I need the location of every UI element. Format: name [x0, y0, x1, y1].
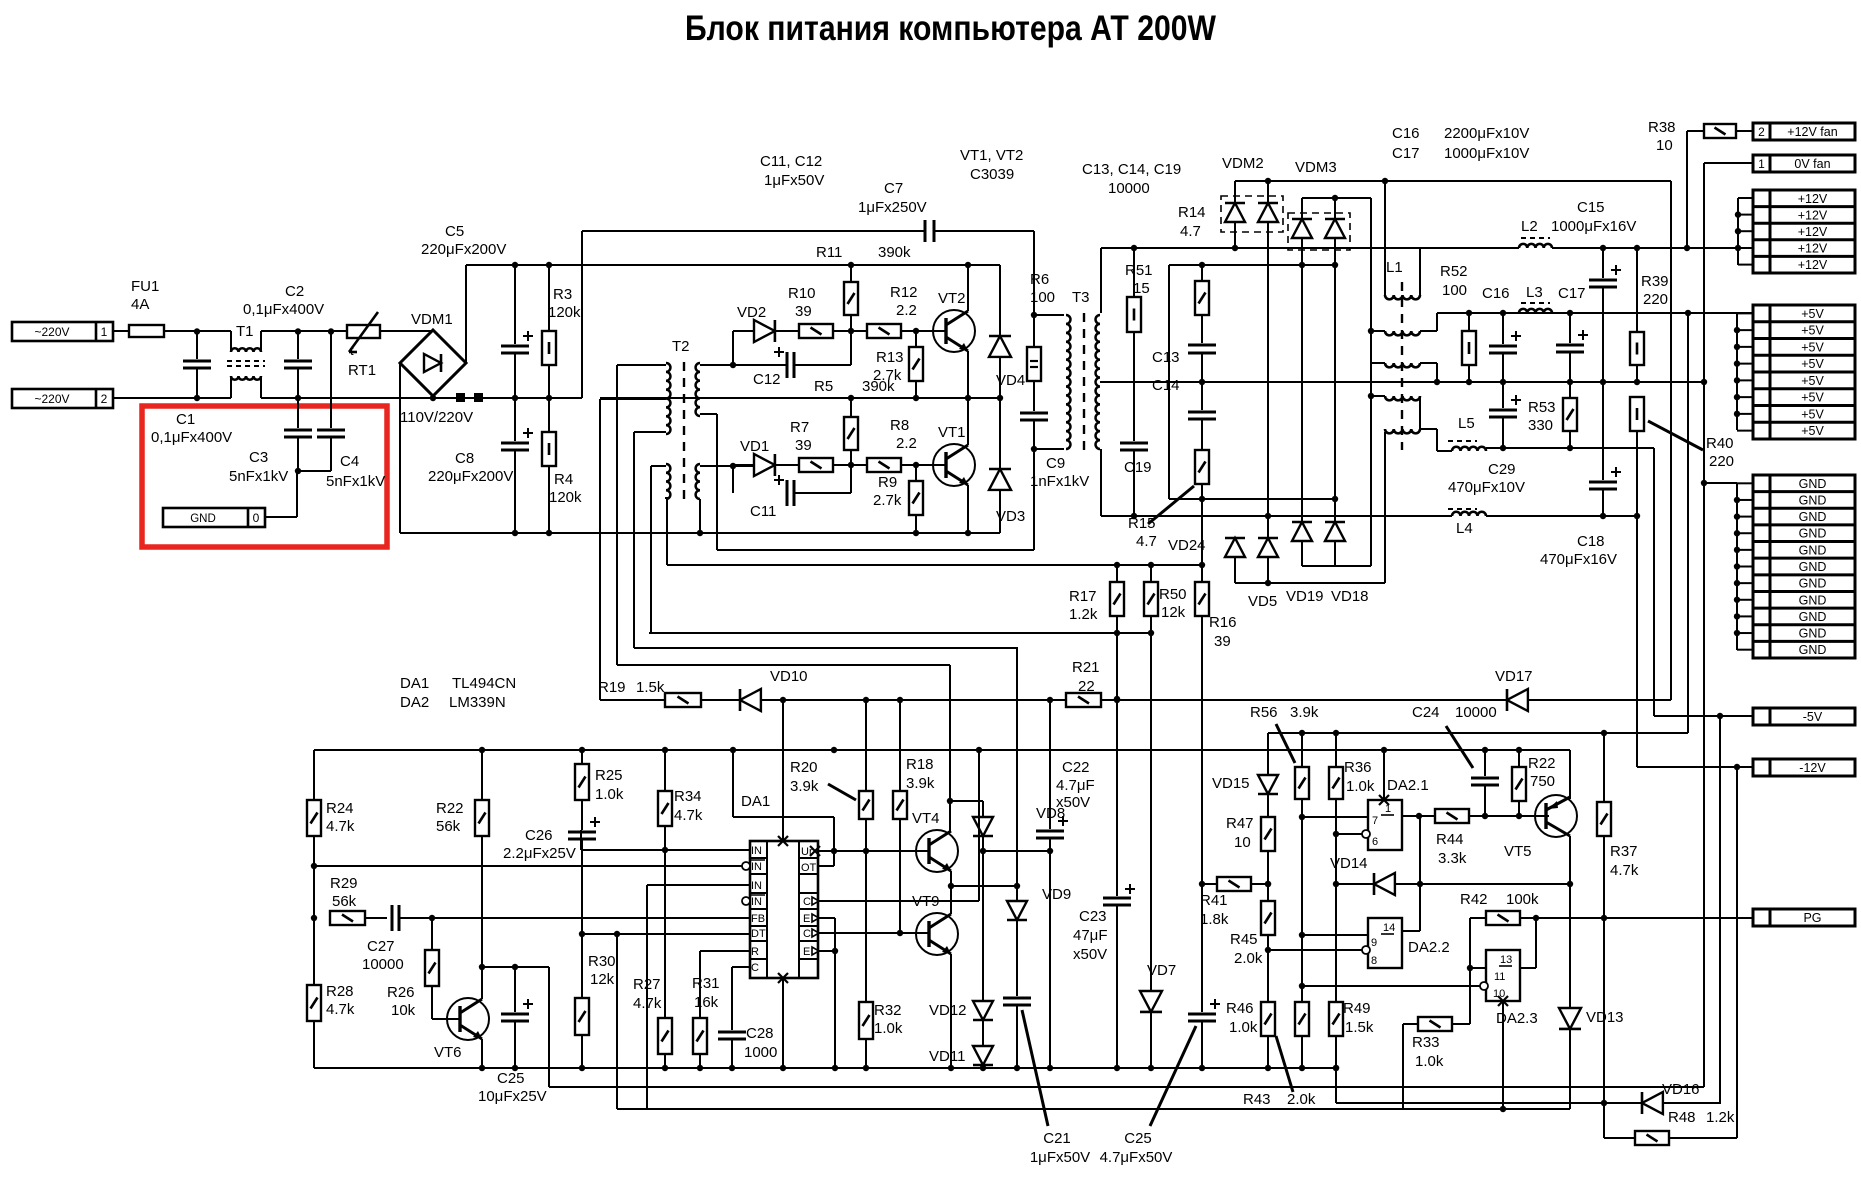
resistor R43 body [1295, 1002, 1309, 1036]
L1 winding 4 [1371, 395, 1385, 397]
wire T2 tap y399 [600, 398, 666, 400]
L1 winding 1 +12V [1384, 181, 1386, 295]
svg-text:R42: R42 [1460, 891, 1488, 908]
svg-text:390k: 390k [862, 378, 895, 395]
svg-text:10: 10 [1656, 137, 1673, 154]
wire DC+ rail y265 [466, 264, 1000, 266]
svg-text:-12V: -12V [1799, 761, 1826, 775]
svg-text:0V fan: 0V fan [1794, 157, 1830, 171]
wire VD24 anode line y583 [1235, 582, 1385, 584]
svg-text:+5V: +5V [1801, 357, 1824, 371]
svg-text:GND: GND [1799, 577, 1827, 591]
svg-text:8: 8 [1371, 955, 1377, 967]
svg-text:110V/220V: 110V/220V [400, 409, 473, 426]
svg-text:~220V: ~220V [34, 325, 69, 339]
svg-text:C29: C29 [1488, 461, 1516, 478]
svg-text:R28: R28 [326, 983, 354, 1000]
svg-text:R46: R46 [1226, 1000, 1254, 1017]
svg-text:GND: GND [1799, 493, 1827, 507]
wire DA2.1 output to R44 [1402, 815, 1435, 817]
svg-text:VD2: VD2 [737, 304, 766, 321]
svg-text:R3: R3 [553, 286, 572, 303]
svg-text:C1: C1 [176, 411, 195, 428]
wire rail y1109 [617, 1108, 1570, 1110]
svg-text:1.2k: 1.2k [1706, 1109, 1735, 1126]
vertical feed x667 to y565 [666, 497, 668, 565]
svg-text:3.3k: 3.3k [1438, 850, 1467, 867]
svg-text:+12V fan: +12V fan [1787, 125, 1837, 139]
wire VT6 collector node [482, 966, 549, 968]
wire +5V bus [1736, 313, 1738, 430]
fuse FU1 [129, 325, 164, 337]
svg-text:C21: C21 [1043, 1130, 1071, 1147]
svg-text:1.0k: 1.0k [595, 786, 624, 803]
wire VD19 VD18 anode line y566 [1302, 565, 1371, 567]
svg-text:1000: 1000 [744, 1044, 777, 1061]
svg-text:12k: 12k [590, 971, 615, 988]
svg-text:R50: R50 [1159, 586, 1187, 603]
wire L5 -5V line [1486, 447, 1654, 449]
svg-text:1nFx1kV: 1nFx1kV [1030, 473, 1089, 490]
wire midpoint rail y398 west [433, 397, 582, 399]
svg-text:FU1: FU1 [131, 278, 159, 295]
connector GND stack [1753, 475, 1855, 658]
svg-text:4.7k: 4.7k [326, 818, 355, 835]
svg-text:220μFx200V: 220μFx200V [421, 241, 506, 258]
svg-text:R16: R16 [1209, 614, 1237, 631]
svg-text:2.2: 2.2 [896, 435, 917, 452]
svg-text:GND: GND [1799, 527, 1827, 541]
wire control rail y750 [314, 749, 1570, 751]
svg-text:470μFx16V: 470μFx16V [1540, 551, 1617, 568]
wire T2 secondary upper bottom return [700, 413, 717, 415]
svg-text:GND: GND [1799, 593, 1827, 607]
svg-text:GND: GND [1799, 610, 1827, 624]
wire IN- line y866 [314, 865, 748, 867]
svg-text:DA2.2: DA2.2 [1408, 939, 1450, 956]
svg-text:C: C [803, 896, 811, 908]
node bridge bottom [430, 395, 436, 401]
wire T2 tap y497 [665, 497, 667, 499]
svg-text:R53: R53 [1528, 399, 1556, 416]
svg-text:R13: R13 [876, 349, 904, 366]
svg-text:47μF: 47μF [1073, 927, 1108, 944]
wire x617 down [616, 934, 618, 1109]
svg-text:C: C [803, 928, 811, 940]
svg-text:LM339N: LM339N [449, 694, 506, 711]
svg-text:3.9k: 3.9k [790, 778, 819, 795]
svg-text:C13: C13 [1152, 349, 1180, 366]
svg-text:39: 39 [795, 437, 812, 454]
red highlight box around C1 C3 C4 GND [142, 406, 387, 547]
svg-text:R49: R49 [1343, 1000, 1371, 1017]
wire DA2.3 output [1520, 967, 1536, 969]
svg-text:FB: FB [751, 913, 765, 925]
svg-text:R19: R19 [598, 679, 626, 696]
svg-text:+5V: +5V [1801, 307, 1824, 321]
node T3 primary bottom [1031, 446, 1037, 452]
node T3 primary top [1031, 312, 1037, 318]
svg-text:GND: GND [1799, 643, 1827, 657]
svg-text:1.8k: 1.8k [1200, 911, 1229, 928]
svg-text:VT1, VT2: VT1, VT2 [960, 147, 1023, 164]
svg-text:C11: C11 [750, 503, 776, 520]
svg-text:+5V: +5V [1801, 391, 1824, 405]
node C2 top [295, 328, 301, 334]
wire T2 lower secondary bottom [699, 499, 701, 533]
node R13 top [913, 328, 919, 334]
svg-text:+5V: +5V [1801, 324, 1824, 338]
svg-text:1.0k: 1.0k [874, 1020, 903, 1037]
svg-text:5nFx1kV: 5nFx1kV [229, 468, 288, 485]
svg-text:1μFx50V: 1μFx50V [1030, 1149, 1090, 1166]
vertical feed x617 to y665 [616, 365, 618, 665]
svg-text:R52: R52 [1440, 263, 1468, 280]
svg-text:1000μFx16V: 1000μFx16V [1551, 218, 1636, 235]
svg-text:R5: R5 [814, 378, 833, 395]
svg-text:R37: R37 [1610, 843, 1638, 860]
wire Ur link [732, 750, 734, 817]
svg-text:R48: R48 [1668, 1109, 1696, 1126]
svg-text:+12V: +12V [1798, 258, 1828, 272]
wire secondary center rail y382 [1100, 381, 1703, 383]
svg-text:R41: R41 [1200, 892, 1228, 909]
wire IN2 stub [647, 884, 750, 886]
svg-text:10000: 10000 [362, 956, 404, 973]
connector ~220V pin 2 [12, 389, 113, 408]
svg-text:C18: C18 [1577, 533, 1605, 550]
node C4 top [328, 328, 334, 334]
wire line y648 [634, 647, 1018, 649]
wire GND feed [1704, 482, 1737, 484]
svg-text:56k: 56k [332, 893, 357, 910]
svg-text:IN: IN [751, 861, 762, 873]
svg-text:GND: GND [1799, 477, 1827, 491]
svg-text:750: 750 [1530, 773, 1555, 790]
wire +12V bus [1737, 198, 1739, 265]
svg-text:R32: R32 [874, 1002, 902, 1019]
svg-text:+5V: +5V [1801, 424, 1824, 438]
wire line y565 [667, 564, 1202, 566]
svg-text:R14: R14 [1178, 204, 1206, 221]
svg-text:C19: C19 [1124, 459, 1152, 476]
svg-text:VD1: VD1 [740, 438, 769, 455]
svg-text:DA2.1: DA2.1 [1387, 777, 1429, 794]
wire -12V winding line y516 [1101, 515, 1452, 517]
connector 0V fan [1753, 155, 1855, 172]
svg-text:IN: IN [751, 880, 762, 892]
svg-text:3.9k: 3.9k [1290, 704, 1319, 721]
wire DA1 gnd [782, 978, 784, 1068]
svg-text:4A: 4A [131, 296, 149, 313]
svg-text:IN: IN [751, 896, 762, 908]
svg-text:1.5k: 1.5k [1345, 1019, 1374, 1036]
rail y181 to -12V [1235, 180, 1671, 182]
svg-text:C28: C28 [746, 1025, 774, 1042]
svg-text:R47: R47 [1226, 815, 1254, 832]
svg-text:2: 2 [1758, 125, 1765, 139]
svg-text:1.0k: 1.0k [1346, 778, 1375, 795]
svg-text:R30: R30 [588, 953, 616, 970]
svg-text:+5V: +5V [1801, 374, 1824, 388]
svg-text:10000: 10000 [1108, 180, 1150, 197]
svg-text:2.0k: 2.0k [1234, 950, 1263, 967]
svg-text:T1: T1 [236, 323, 254, 340]
wire AC line 1 [113, 330, 129, 332]
svg-text:1.2k: 1.2k [1069, 606, 1098, 623]
wire T2 secondary top to VD2 [700, 364, 787, 366]
svg-text:x50V: x50V [1073, 946, 1107, 963]
svg-text:R34: R34 [674, 788, 702, 805]
svg-text:+5V: +5V [1801, 340, 1824, 354]
wire T3 secondary top lead [1100, 248, 1102, 313]
svg-text:10μFx25V: 10μFx25V [478, 1088, 547, 1105]
svg-text:R24: R24 [326, 800, 354, 817]
diode VD19 [1292, 522, 1312, 541]
connector ~220V pin 1 [12, 322, 113, 341]
svg-text:220μFx200V: 220μFx200V [428, 468, 513, 485]
svg-text:2200μFx10V: 2200μFx10V [1444, 125, 1529, 142]
wire GND bus [1736, 483, 1738, 650]
svg-text:220: 220 [1709, 453, 1734, 470]
svg-text:C12: C12 [753, 371, 781, 388]
svg-text:VD17: VD17 [1495, 668, 1533, 685]
svg-text:10k: 10k [391, 1002, 416, 1019]
svg-text:VD14: VD14 [1330, 855, 1368, 872]
svg-text:100k: 100k [1506, 891, 1539, 908]
svg-text:VD16: VD16 [1662, 1081, 1700, 1098]
svg-text:E: E [803, 946, 810, 958]
wire DT line y934 [582, 933, 750, 935]
node R7 R5 R8 [848, 462, 854, 468]
svg-text:VD12: VD12 [929, 1002, 967, 1019]
svg-text:R21: R21 [1072, 659, 1100, 676]
svg-text:RT1: RT1 [348, 362, 376, 379]
svg-text:0,1μFx400V: 0,1μFx400V [151, 429, 232, 446]
svg-text:4.7k: 4.7k [326, 1001, 355, 1018]
svg-text:PG: PG [1803, 911, 1821, 925]
wire return line y550 [717, 549, 1034, 551]
svg-text:C16: C16 [1482, 285, 1510, 302]
svg-text:2.2μFx25V: 2.2μFx25V [503, 845, 576, 862]
svg-text:R6: R6 [1030, 271, 1049, 288]
svg-text:4.7μF: 4.7μF [1056, 777, 1095, 794]
svg-text:R33: R33 [1412, 1034, 1440, 1051]
svg-text:C27: C27 [367, 938, 395, 955]
wire AC line 2 [113, 397, 231, 399]
svg-text:R38: R38 [1648, 119, 1676, 136]
svg-text:R11: R11 [816, 244, 842, 261]
svg-text:DA1: DA1 [741, 793, 770, 810]
vertical feed x600 to R19 [599, 399, 601, 700]
svg-text:C25: C25 [1124, 1130, 1152, 1147]
svg-text:VT9: VT9 [912, 893, 940, 910]
svg-text:GND: GND [1799, 627, 1827, 641]
L1 winding 5 [1385, 429, 1420, 433]
svg-text:C17: C17 [1558, 285, 1586, 302]
wire DA1 out C1 y901 [818, 900, 979, 902]
svg-text:15: 15 [1133, 280, 1150, 297]
svg-text:6: 6 [1372, 836, 1378, 848]
svg-text:100: 100 [1442, 282, 1467, 299]
svg-text:VD5: VD5 [1248, 593, 1277, 610]
svg-text:2.2: 2.2 [896, 302, 917, 319]
svg-text:DA1: DA1 [400, 675, 429, 692]
node R10 R11 R12 [848, 328, 854, 334]
svg-text:VD19: VD19 [1286, 588, 1324, 605]
connector +12V stack [1753, 190, 1855, 273]
wire line y633 [649, 632, 1151, 634]
wire DA2.1 inputs [1302, 816, 1368, 818]
svg-text:R12: R12 [890, 284, 918, 301]
vertical feed x651 to y633 [650, 466, 652, 633]
svg-text:C11, C12: C11, C12 [760, 153, 822, 170]
connector -5V [1753, 708, 1855, 725]
svg-text:4.7: 4.7 [1180, 223, 1201, 240]
wire DC- rail y533 [400, 532, 1000, 534]
svg-text:C25: C25 [497, 1070, 525, 1087]
capacitor C25 4.7uF [1201, 884, 1203, 1012]
svg-text:R45: R45 [1230, 931, 1258, 948]
svg-text:C23: C23 [1079, 908, 1107, 925]
svg-text:GND: GND [1799, 510, 1827, 524]
svg-text:R9: R9 [878, 474, 897, 491]
svg-text:330: 330 [1528, 417, 1553, 434]
voltage selector jumper squares [456, 393, 465, 402]
connector PG [1753, 909, 1855, 926]
svg-text:L5: L5 [1458, 415, 1475, 432]
svg-text:14: 14 [1383, 922, 1395, 934]
wire rail y1087 [549, 1086, 1704, 1088]
svg-text:10000: 10000 [1455, 704, 1497, 721]
wire +5V rail y313 [1437, 312, 1753, 314]
svg-text:VD24: VD24 [1168, 537, 1206, 554]
svg-text:R26: R26 [387, 984, 415, 1001]
svg-text:C16: C16 [1392, 125, 1420, 142]
svg-text:R22: R22 [1528, 755, 1556, 772]
wire DA2.3 gnd down [1502, 1001, 1504, 1109]
wire T3 secondary bottom lead [1100, 449, 1102, 516]
svg-text:+12V: +12V [1798, 225, 1828, 239]
wire DA1 out E pins [818, 917, 835, 919]
svg-text:220: 220 [1643, 291, 1668, 308]
wire PG line [1520, 917, 1753, 919]
svg-text:E: E [803, 913, 810, 925]
X marks DA1 power pins [778, 836, 788, 846]
svg-text:C8: C8 [455, 450, 474, 467]
svg-text:C3: C3 [249, 449, 268, 466]
svg-text:0: 0 [253, 511, 260, 525]
wire bridge right vertex up [465, 265, 467, 363]
svg-text:R: R [751, 946, 759, 958]
svg-text:2: 2 [101, 392, 108, 406]
wire C3-C4 junction [297, 470, 331, 472]
capacitor C21 [1003, 998, 1031, 1005]
svg-text:R7: R7 [790, 419, 809, 436]
svg-text:C26: C26 [525, 827, 553, 844]
svg-text:x50V: x50V [1056, 794, 1090, 811]
svg-text:R4: R4 [554, 471, 573, 488]
svg-text:VT1: VT1 [938, 424, 966, 441]
svg-text:TL494CN: TL494CN [452, 675, 516, 692]
svg-text:R36: R36 [1344, 759, 1372, 776]
svg-text:IN: IN [751, 845, 762, 857]
svg-text:L1: L1 [1386, 259, 1403, 276]
wire -12V line [1637, 766, 1753, 768]
capacitor line filter left [196, 331, 198, 359]
svg-text:4.7μFx50V: 4.7μFx50V [1100, 1149, 1173, 1166]
svg-text:C5: C5 [445, 223, 464, 240]
svg-text:3.9k: 3.9k [906, 775, 935, 792]
vertical feed x634 to y648 [633, 432, 635, 648]
wire +5V sense x1688 [1687, 313, 1689, 733]
L1 winding 3 [1371, 362, 1385, 364]
svg-text:VT2: VT2 [938, 290, 966, 307]
wire DA1 Vcc [782, 700, 784, 841]
svg-text:-5V: -5V [1803, 710, 1823, 724]
wire T2 tap y466 [651, 465, 666, 467]
svg-text:R43: R43 [1243, 1091, 1271, 1108]
connector +12V fan [1753, 123, 1855, 140]
svg-text:R20: R20 [790, 759, 818, 776]
svg-text:1.0k: 1.0k [1229, 1019, 1258, 1036]
svg-text:1: 1 [1758, 157, 1765, 171]
svg-text:R51: R51 [1125, 262, 1153, 279]
svg-text:11: 11 [1494, 971, 1505, 983]
svg-text:C4: C4 [340, 453, 359, 470]
svg-text:+12V: +12V [1798, 242, 1828, 256]
svg-text:7: 7 [1372, 815, 1378, 827]
svg-text:12k: 12k [1161, 604, 1186, 621]
wire IN line y850 [581, 849, 750, 851]
svg-text:C3039: C3039 [970, 166, 1014, 183]
svg-text:C2: C2 [285, 283, 304, 300]
wire switch-node rail y398 east [600, 397, 1000, 399]
svg-text:R15: R15 [1128, 515, 1156, 532]
svg-text:C22: C22 [1062, 759, 1090, 776]
svg-text:VDM2: VDM2 [1222, 155, 1264, 172]
svg-text:1μFx250V: 1μFx250V [858, 199, 927, 216]
wire 0V fan lead [1704, 162, 1753, 164]
svg-text:+12V: +12V [1798, 192, 1828, 206]
diode VD18 [1325, 522, 1345, 541]
svg-text:R25: R25 [595, 767, 623, 784]
svg-text:16k: 16k [694, 994, 719, 1011]
wire DA1 out C2 to VT9 base [818, 932, 929, 934]
svg-text:1.0k: 1.0k [1415, 1053, 1444, 1070]
wire line y733 [1268, 732, 1688, 734]
node on line2 at C-filter [194, 395, 200, 401]
L1 winding 2 +5V [1371, 330, 1385, 332]
label R43 callout [1276, 1036, 1293, 1092]
wire Ur line y851 [818, 850, 929, 852]
wire x1371 from VDM3 to L1 [1370, 198, 1372, 566]
wire x582 link [581, 231, 583, 398]
wire -5V line [1654, 715, 1753, 717]
svg-text:L4: L4 [1456, 520, 1473, 537]
node line2 x298 [295, 395, 301, 401]
svg-text:R31: R31 [692, 975, 720, 992]
svg-text:C7: C7 [884, 180, 903, 197]
svg-text:4.7k: 4.7k [1610, 862, 1639, 879]
svg-text:C13, C14, C19: C13, C14, C19 [1082, 161, 1181, 178]
svg-text:L2: L2 [1521, 218, 1538, 235]
node R9 top [913, 462, 919, 468]
svg-text:1000μFx10V: 1000μFx10V [1444, 145, 1529, 162]
svg-text:R56: R56 [1250, 704, 1278, 721]
wire rail to VD16 y1103 [1335, 1068, 1337, 1103]
svg-text:R44: R44 [1436, 831, 1464, 848]
